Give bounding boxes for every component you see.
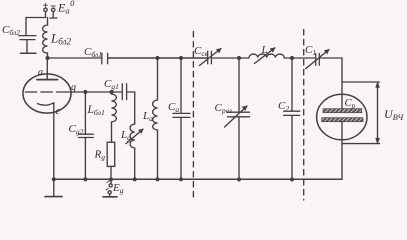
wire: Ea supply top horizontal (26, 17, 46, 19)
svg-text:UВЧ: UВЧ (384, 107, 404, 122)
capacitor C2 (284, 58, 300, 179)
svg-text:a: a (38, 67, 43, 78)
node cathode/bottom-rail (52, 178, 55, 181)
measuring capacitor Cp envelope (317, 94, 367, 140)
capacitor Cg1 (122, 84, 126, 100)
node anode rail / Ca (180, 57, 183, 60)
node C2/bottom rail (291, 178, 294, 181)
tube anode plate (37, 79, 58, 81)
ground under cathode (45, 179, 62, 196)
node grid wire / Cg2 (84, 91, 87, 94)
node Rg wire / bottom rail crossing (110, 178, 113, 181)
resistor Rg (107, 142, 115, 166)
capacitor Cбл2 (19, 18, 36, 54)
inductor La (153, 58, 158, 179)
cathode lead down (53, 103, 55, 180)
inductor Lбл1 (112, 92, 117, 142)
svg-text:Lбл2: Lбл2 (50, 31, 71, 47)
node anode rail / La (156, 57, 159, 60)
inductor Lg (variable) (126, 124, 143, 179)
tube grid (dashed) (25, 91, 66, 93)
node anode rail / Cрег (238, 57, 241, 60)
tube cathode arc (38, 103, 54, 105)
capacitor C1 (variable) (306, 50, 329, 69)
tube anode lead (46, 58, 48, 80)
svg-text:Cбл1: Cбл1 (84, 46, 102, 59)
terminal - of Eg (107, 181, 112, 187)
svg-text:Cg1: Cg1 (104, 78, 119, 91)
partition dashed line 2 (303, 30, 305, 201)
svg-text:Cp: Cp (345, 98, 356, 110)
svg-text:Eg: Eg (112, 182, 124, 195)
svg-text:La: La (142, 110, 153, 123)
svg-text:Cg2: Cg2 (69, 123, 84, 136)
svg-text:L: L (261, 44, 268, 56)
terminal + of Eg (106, 188, 111, 196)
node grid wire / Lбл1 (110, 91, 113, 94)
svg-text:Rg: Rg (94, 149, 106, 162)
svg-text:C2: C2 (278, 100, 289, 113)
bottom rail (54, 178, 342, 180)
svg-text:c: c (56, 106, 61, 117)
node Lg/bottom rail (133, 178, 136, 181)
wire: grid lead to Cg2 node (66, 91, 85, 93)
svg-text:Lg: Lg (120, 129, 131, 142)
partition dashed line 1 (192, 32, 194, 201)
Uвч double arrow (376, 82, 380, 144)
wire: grid wire Lбл1 node to Cg1 (112, 91, 123, 93)
wire: anode rail left segment to Cбл1 (48, 57, 102, 59)
inductor L (variable, in rail) (249, 48, 284, 64)
wire: L to C2 node (284, 57, 316, 59)
node Ca/bottom rail (180, 178, 183, 181)
wire: Cсв to Cрег node (211, 57, 249, 59)
svg-text:Ea0: Ea0 (57, 0, 75, 16)
svg-text:Lбл1: Lбл1 (87, 104, 106, 117)
node anode rail / C2 (291, 57, 294, 60)
tube V1 envelope (23, 74, 71, 113)
svg-text:Ca: Ca (168, 101, 179, 114)
capacitor Cбл1 (102, 53, 108, 64)
Uвч upper reference line (342, 81, 380, 83)
capacitor Ca (173, 58, 190, 179)
svg-text:Cбл2: Cбл2 (2, 24, 20, 37)
ground bar under Eg (103, 196, 117, 198)
wire: Cg1 to Lg corner (127, 92, 135, 124)
node La/bottom rail (156, 178, 159, 181)
wire: anode rail from Cбл1 to Cсв (108, 57, 208, 59)
wire: grid wire Cg2 node to Lбл1 node (85, 91, 111, 93)
node Cg2/bottom rail (84, 178, 87, 181)
Cp lower hatched plate (322, 118, 363, 122)
wire: Cp lower plate to bottom rail (341, 122, 343, 180)
terminal - of Ea (50, 6, 57, 18)
svg-text:Cсв: Cсв (194, 45, 209, 58)
inductor Lбл2 (43, 18, 48, 59)
wire: Rg to Eg terminal (110, 166, 112, 183)
capacitor Cсв (variable) (200, 49, 222, 66)
ground bar under Cбл2 (21, 52, 37, 54)
Uвч lower reference line (342, 143, 380, 145)
capacitor Cрег (variable) (225, 58, 250, 179)
svg-text:C1: C1 (305, 44, 316, 57)
wire: C1 to right corner, down to Cp (319, 58, 342, 109)
capacitor Cg2 (79, 92, 94, 179)
Cp upper hatched plate (323, 109, 362, 113)
node Cрег/bottom rail (238, 178, 241, 181)
node anode rail / Lбл2 junction (46, 57, 49, 60)
svg-text:g: g (71, 82, 76, 93)
svg-text:Cрег: Cрег (215, 102, 232, 115)
terminal + of Ea (44, 3, 48, 17)
